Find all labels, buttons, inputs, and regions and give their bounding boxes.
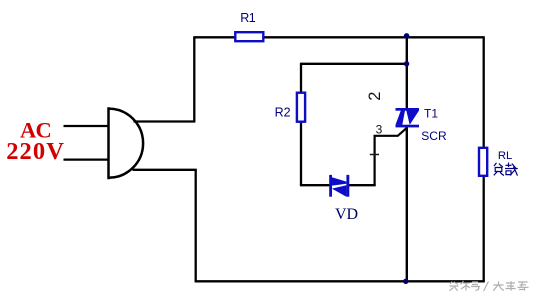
svg-text:2: 2 (366, 92, 384, 101)
junction node bottom rail (403, 279, 408, 284)
junction node top rail (404, 33, 409, 38)
svg-text:R1: R1 (240, 11, 255, 25)
wire bottom rail (195, 280, 485, 282)
watermark 头条号/大年君 (450, 281, 529, 291)
label AC (20, 117, 51, 142)
svg-text:SCR: SCR (421, 129, 447, 143)
resistor RL (479, 148, 487, 176)
wire plug bottom output (133, 169, 197, 171)
wire left upper vertical (193, 36, 195, 121)
wire SCR branch vertical upper (406, 36, 408, 109)
AC plug P (109, 107, 144, 179)
wire SCR branch vertical lower (406, 126, 408, 281)
label VD (335, 206, 358, 223)
wire trigger loop top (301, 63, 407, 65)
wire AC input bottom (64, 158, 109, 160)
label 220V (6, 138, 65, 165)
wire plug top output (134, 120, 196, 122)
wire right vertical (483, 36, 485, 281)
pin label 2 (366, 92, 384, 101)
wire left lower vertical (195, 170, 197, 281)
svg-text:R2: R2 (275, 105, 291, 119)
resistor R1 (235, 32, 263, 41)
wire R2 branch vertical (300, 63, 302, 186)
svg-text:T1: T1 (424, 106, 438, 120)
gate tick mark (370, 154, 379, 156)
wire gate polyline (375, 127, 408, 185)
label load 负载 (494, 163, 518, 176)
wire trigger loop bottom left (300, 184, 330, 186)
svg-text:220V: 220V (6, 138, 65, 165)
wire trigger loop bottom right (349, 184, 376, 186)
diac VD (329, 175, 349, 197)
svg-text:RL: RL (498, 150, 512, 162)
wire top rail (194, 36, 483, 38)
label R2 (275, 105, 291, 119)
svg-text:VD: VD (335, 206, 358, 223)
svg-text:3: 3 (376, 122, 383, 136)
pin label 3 (376, 122, 383, 136)
label T1 (424, 106, 438, 120)
wire AC input top (64, 125, 109, 127)
label R1 (240, 11, 255, 25)
thyristor T1 (396, 108, 420, 127)
label SCR (421, 129, 447, 143)
label RL (498, 150, 512, 162)
junction node trigger loop (404, 61, 409, 66)
resistor R2 (297, 93, 305, 122)
